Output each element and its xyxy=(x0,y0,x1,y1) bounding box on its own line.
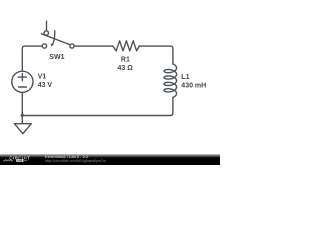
switch terminal left xyxy=(42,44,46,48)
wire V1 bottom to junction xyxy=(21,92,23,115)
svg-text:LAB: LAB xyxy=(17,159,23,163)
svg-text:SW1: SW1 xyxy=(49,54,64,61)
footer bar xyxy=(0,154,220,165)
wire bottom run and right rail up xyxy=(22,97,173,115)
switch terminal top xyxy=(44,31,48,35)
wire resistor to top-right corner xyxy=(139,46,173,64)
svg-text:http://circuitlab.com/c64g8qba: http://circuitlab.com/c64g8qba6pm2w xyxy=(45,159,106,163)
switch lever xyxy=(42,34,71,45)
svg-text:R1: R1 xyxy=(121,56,130,63)
node junction xyxy=(21,114,24,117)
voltage source V1 xyxy=(12,71,33,92)
svg-text:43 V: 43 V xyxy=(38,82,53,89)
wire top-left from switch to V1 xyxy=(22,46,42,71)
switch arrow xyxy=(53,31,55,45)
inductor L1 coil xyxy=(164,64,177,97)
resistor R1 xyxy=(113,41,140,51)
ground stub xyxy=(21,116,23,124)
svg-text:L1: L1 xyxy=(181,74,189,81)
switch SW1 top stub xyxy=(46,21,48,30)
ground xyxy=(14,124,31,134)
switch terminal right xyxy=(70,44,74,48)
svg-text:43 Ω: 43 Ω xyxy=(118,65,134,72)
svg-text:V1: V1 xyxy=(38,73,47,80)
svg-text:430 mH: 430 mH xyxy=(181,82,206,89)
wire switch to resistor xyxy=(74,45,113,47)
logo zigzag resistor xyxy=(4,160,13,162)
logo LAB box xyxy=(16,159,23,162)
switch arrowhead xyxy=(51,43,54,46)
